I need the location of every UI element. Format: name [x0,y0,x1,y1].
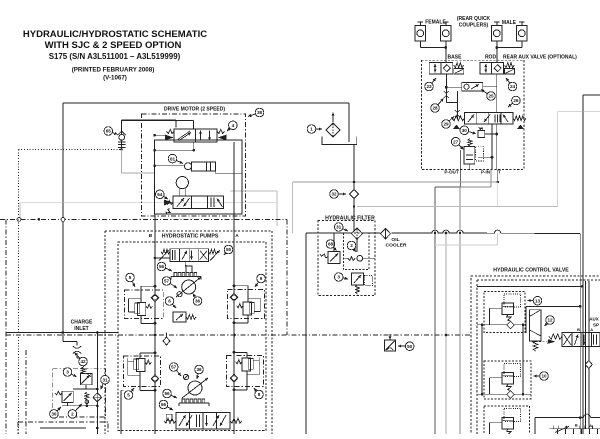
svg-text:B: B [575,423,578,428]
svg-text:36: 36 [195,299,201,304]
svg-text:23: 23 [426,84,432,89]
svg-text:MALE: MALE [502,20,517,26]
svg-text:61: 61 [170,156,176,161]
svg-text:9: 9 [260,276,263,281]
svg-text:64: 64 [157,192,163,197]
svg-text:25: 25 [488,94,494,99]
svg-text:T: T [498,170,501,175]
svg-text:57: 57 [171,365,177,370]
svg-text:HYDRAULIC CONTROL VALVE: HYDRAULIC CONTROL VALVE [493,268,569,274]
svg-text:AUX: AUX [589,317,599,322]
svg-text:ROD: ROD [485,55,497,61]
svg-text:29: 29 [443,122,449,127]
svg-text:10: 10 [541,374,547,379]
svg-text:68: 68 [328,242,334,247]
svg-text:A: A [590,327,593,332]
svg-text:30: 30 [51,412,57,417]
svg-text:26: 26 [513,98,519,103]
svg-text:P-IN: P-IN [481,170,491,175]
svg-text:B: B [149,233,153,239]
svg-text:2: 2 [350,243,353,248]
svg-text:57: 57 [164,279,170,284]
svg-text:38: 38 [257,110,263,115]
svg-text:66: 66 [161,402,167,407]
svg-text:5: 5 [129,275,132,280]
svg-text:BASE: BASE [448,55,463,61]
svg-text:32: 32 [331,192,337,197]
svg-text:3: 3 [66,370,69,375]
svg-text:WITH SJC & 2 SPEED OPTION: WITH SJC & 2 SPEED OPTION [45,40,182,51]
svg-text:HYDRAULIC/HYDROSTATIC SCHEMATI: HYDRAULIC/HYDROSTATIC SCHEMATIC [23,29,207,40]
svg-text:50: 50 [407,344,413,349]
svg-text:13: 13 [535,298,541,303]
svg-text:FEMALE: FEMALE [425,19,446,25]
svg-text:B: B [577,327,580,332]
svg-text:31: 31 [102,377,108,382]
svg-text:65: 65 [106,129,112,134]
svg-text:5: 5 [127,393,130,398]
svg-text:CHARGE: CHARGE [71,320,93,326]
svg-text:HYDROSTATIC PUMPS: HYDROSTATIC PUMPS [162,233,219,239]
svg-text:28: 28 [432,106,438,111]
svg-text:4: 4 [232,123,235,128]
svg-text:INLET: INLET [74,326,88,332]
svg-text:1: 1 [310,127,313,132]
svg-text:DRIVE MOTOR (2 SPEED): DRIVE MOTOR (2 SPEED) [164,107,225,113]
svg-text:55: 55 [226,247,232,252]
svg-text:(V-1067): (V-1067) [103,74,127,81]
svg-text:42: 42 [80,359,86,364]
svg-text:30: 30 [462,128,468,133]
svg-text:COOLER: COOLER [386,242,407,248]
svg-text:6: 6 [168,299,171,304]
svg-text:24: 24 [510,84,516,89]
svg-text:COUPLERS): COUPLERS) [459,22,489,28]
svg-text:A: A [589,423,592,428]
svg-text:OIL: OIL [391,237,399,243]
svg-text:3: 3 [337,275,340,280]
svg-text:(PRINTED FEBRUARY 2008): (PRINTED FEBRUARY 2008) [72,67,155,74]
svg-text:27: 27 [453,139,459,144]
svg-text:S175 (S/N A3L511001 – A3L51999: S175 (S/N A3L511001 – A3L519999) [49,52,181,61]
svg-text:12: 12 [547,318,553,323]
svg-text:56: 56 [164,391,170,396]
svg-text:A: A [235,233,239,239]
svg-text:P-OUT: P-OUT [444,170,458,175]
svg-text:36: 36 [196,367,202,372]
svg-text:REAR AUX VALVE (OPTIONAL): REAR AUX VALVE (OPTIONAL) [503,55,577,61]
svg-text:56: 56 [159,264,165,269]
svg-text:8: 8 [258,392,261,397]
svg-text:2: 2 [71,412,74,417]
svg-text:SP: SP [593,323,599,328]
svg-text:(REAR QUICK: (REAR QUICK [457,16,491,22]
svg-text:31: 31 [336,225,342,230]
